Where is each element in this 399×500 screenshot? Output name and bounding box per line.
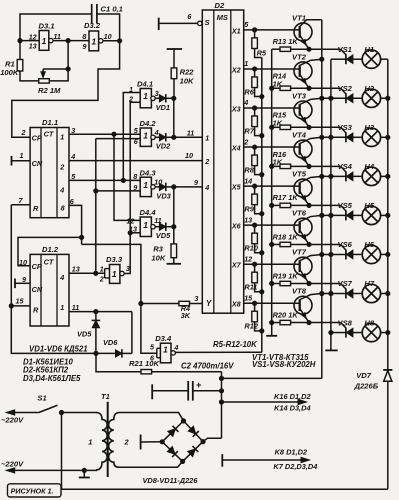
wire D3.2 out xyxy=(103,40,120,42)
node supply rail tap xyxy=(219,376,223,380)
svg-text:6: 6 xyxy=(187,12,192,21)
node VT1 emitter junction xyxy=(307,47,311,51)
wire D1.1 R pin xyxy=(11,204,30,206)
svg-text:2: 2 xyxy=(124,438,130,447)
node collector rail junction xyxy=(320,96,324,100)
wire VD1-VD2 tie xyxy=(173,98,175,137)
node bridge top xyxy=(181,419,185,423)
node D1.2 R junction xyxy=(9,304,13,308)
lamp H2 xyxy=(362,89,380,107)
svg-text:4: 4 xyxy=(59,273,64,282)
wire D2 X7 to VT7 base xyxy=(244,263,300,265)
resistor R12 xyxy=(254,303,256,311)
terminal bar R3 bottom xyxy=(167,263,181,265)
svg-text:1: 1 xyxy=(20,151,24,160)
svg-text:R11: R11 xyxy=(244,283,257,292)
multiplexer D2 xyxy=(202,10,243,313)
counter D1.2 xyxy=(30,254,69,326)
node R17 bus junction xyxy=(270,203,274,207)
wire D1.1 Q2 to D2 pin10 xyxy=(69,160,202,162)
node bridge bottom xyxy=(181,459,185,463)
resistor R18 xyxy=(272,243,280,245)
svg-text:5: 5 xyxy=(150,343,155,352)
svg-text:VT6: VT6 xyxy=(292,209,307,218)
wire D3.4 out to pulldown bus xyxy=(175,351,261,353)
svg-text:R7: R7 xyxy=(244,126,254,135)
lamp return rail xyxy=(387,59,389,370)
wire D3.2 output to D1.1 CP xyxy=(12,41,120,138)
svg-text:VS4: VS4 xyxy=(338,162,353,171)
svg-text:1K: 1K xyxy=(273,118,283,127)
svg-text:K16 D1,D2: K16 D1,D2 xyxy=(274,392,311,401)
resistor R6 xyxy=(254,69,256,77)
svg-text:VS1-VS8-КУ202Н: VS1-VS8-КУ202Н xyxy=(252,360,316,369)
svg-text:1: 1 xyxy=(143,180,148,190)
transistor VT1 xyxy=(294,23,312,41)
terminal bar C2 left xyxy=(151,384,153,399)
terminal bar K8 arrow xyxy=(221,454,223,467)
node D4.4 pin13 junction xyxy=(128,231,132,235)
wire Q8 to D1.2 CP xyxy=(18,237,82,265)
svg-text:X4: X4 xyxy=(231,143,241,152)
svg-text:100K: 100K xyxy=(0,68,19,77)
wire Q4 branch to D4.1 pin1 xyxy=(123,93,140,181)
thyristor VS1 xyxy=(331,58,346,60)
svg-text:13: 13 xyxy=(244,215,252,224)
svg-text:Д226Б: Д226Б xyxy=(354,381,379,390)
svg-text:H2: H2 xyxy=(364,84,374,93)
potentiometer R2 xyxy=(39,79,50,83)
node X2 pulldown tap xyxy=(253,67,257,71)
wire to D4.3 pin9 xyxy=(96,190,140,192)
transistor VT7 xyxy=(294,257,312,275)
wire VT4 emitter to VS4 gate xyxy=(309,165,341,167)
diode VD7 xyxy=(383,369,392,371)
transistor VT6 xyxy=(294,218,312,236)
wire C1 right lead xyxy=(97,14,119,41)
svg-text:R17 1K: R17 1K xyxy=(273,193,299,202)
svg-text:D2: D2 xyxy=(215,1,225,10)
svg-text:VD5: VD5 xyxy=(77,329,92,338)
lamp H3 xyxy=(362,128,380,146)
svg-text:VT2: VT2 xyxy=(292,52,307,61)
svg-text:X2: X2 xyxy=(231,65,241,74)
svg-text:13: 13 xyxy=(29,42,37,51)
gate D4.3 xyxy=(140,177,151,196)
node collector rail junction xyxy=(320,252,324,256)
svg-text:R19 1K: R19 1K xyxy=(273,271,299,280)
node VD2 cathode junction xyxy=(172,135,176,139)
wire D1.1 Q8 down xyxy=(69,205,82,244)
svg-text:9: 9 xyxy=(133,183,137,192)
node VD1 cathode junction xyxy=(172,96,176,100)
svg-text:15: 15 xyxy=(16,297,25,306)
svg-text:R3: R3 xyxy=(153,244,163,253)
svg-text:K8 D1,D2: K8 D1,D2 xyxy=(275,447,308,456)
svg-text:X8: X8 xyxy=(231,300,241,309)
terminal bar bridge common xyxy=(140,435,142,450)
resistor R7 xyxy=(254,108,256,116)
svg-text:R2 1M: R2 1M xyxy=(38,86,61,95)
node X4 pulldown tap xyxy=(253,145,257,149)
svg-text:VD1-VD6 КД521: VD1-VD6 КД521 xyxy=(29,344,88,353)
reset bus left xyxy=(11,205,96,354)
resistor R1 xyxy=(19,41,21,60)
node lamp H2 rail junction xyxy=(386,96,390,100)
lamp H4 xyxy=(362,167,380,185)
wire live down to lamp rail xyxy=(61,413,63,490)
node VD4 cathode junction xyxy=(172,225,176,229)
svg-text:CP: CP xyxy=(32,133,42,142)
svg-text:10K: 10K xyxy=(151,254,165,263)
wire Q1 branch to D4.4 pin12 xyxy=(114,134,140,220)
node collector rail junction xyxy=(320,174,324,178)
svg-text:1: 1 xyxy=(91,37,96,47)
node K16 arrow junction xyxy=(219,400,223,404)
node R16 bus junction xyxy=(270,164,274,168)
node R19 bus junction xyxy=(270,281,274,285)
resistor R19 xyxy=(272,283,280,285)
node X3 pulldown tap xyxy=(253,106,257,110)
wire VT3 emitter to VS3 gate xyxy=(309,126,341,128)
svg-text:Y: Y xyxy=(206,299,212,308)
svg-text:R1: R1 xyxy=(5,60,15,69)
wire D1.1 Q1 to D4.2 pin5 xyxy=(69,133,140,135)
svg-text:3K: 3K xyxy=(181,311,191,320)
lamp H7 xyxy=(362,284,380,302)
gate D3.3 xyxy=(104,269,106,278)
wire K8 common arrow xyxy=(222,459,302,461)
node lamp H7 rail junction xyxy=(386,291,390,295)
svg-text:H1: H1 xyxy=(364,45,374,54)
terminal bar neutral common xyxy=(83,470,85,477)
node R20 bus junction xyxy=(270,320,274,324)
node neutral junction xyxy=(82,468,86,472)
svg-text:K7 D2,D3,D4: K7 D2,D3,D4 xyxy=(273,462,317,471)
node S1 output junction xyxy=(59,410,63,414)
svg-text:1: 1 xyxy=(112,269,117,279)
lamp H8 xyxy=(362,323,380,341)
node R14 bus junction xyxy=(270,86,274,90)
wire VD6 cathode up to D1.2 Q1 xyxy=(131,312,133,354)
resistor R8 xyxy=(254,147,256,155)
svg-text:1: 1 xyxy=(163,345,168,355)
wire address A2 to D2 pin9 xyxy=(174,186,202,188)
wire Q8 to R4 node xyxy=(82,244,141,303)
node VT2 emitter junction xyxy=(307,86,311,90)
node VT5 emitter junction xyxy=(307,203,311,207)
svg-text:VS3: VS3 xyxy=(338,123,353,132)
diode VD10 xyxy=(167,447,175,455)
svg-text:VT1: VT1 xyxy=(292,13,306,22)
thyristor VS8 xyxy=(331,332,346,334)
svg-text:D3.2: D3.2 xyxy=(84,21,101,30)
capacitor C1 xyxy=(91,4,93,24)
svg-text:3: 3 xyxy=(126,264,130,273)
svg-text:12: 12 xyxy=(244,254,252,263)
wire D2 X5 to VT5 base xyxy=(244,185,300,187)
diode VD1 xyxy=(155,97,159,99)
supply vertical from bridge xyxy=(221,372,223,439)
node X6 pulldown tap xyxy=(253,223,257,227)
resistor R5 xyxy=(254,30,256,38)
node R2 top junction xyxy=(66,39,70,43)
svg-text:1K: 1K xyxy=(273,157,283,166)
wire VT8 emitter to VS8 gate xyxy=(309,322,341,324)
collector supply rail xyxy=(321,20,323,379)
svg-text:8: 8 xyxy=(61,204,65,213)
svg-text:VS6: VS6 xyxy=(338,240,353,249)
node R18 bus junction xyxy=(270,242,274,246)
node reset diode junction xyxy=(94,351,98,355)
node VT8 emitter junction xyxy=(307,320,311,324)
svg-text:H4: H4 xyxy=(364,162,374,171)
svg-text:R5-R12-10K: R5-R12-10K xyxy=(213,340,258,349)
gate D4.1 xyxy=(140,89,151,108)
svg-text:VT3: VT3 xyxy=(292,91,307,100)
svg-text:VS1: VS1 xyxy=(338,45,352,54)
svg-text:K14 D3,D4: K14 D3,D4 xyxy=(274,404,311,413)
wire K16 supply arrow xyxy=(222,401,300,403)
svg-text:VS2: VS2 xyxy=(338,84,353,93)
node D4.3 pin9 tap xyxy=(94,189,98,193)
svg-text:VT5: VT5 xyxy=(292,170,307,179)
wire bus to D4.2 pin6 xyxy=(96,138,140,140)
svg-text:2: 2 xyxy=(243,137,248,146)
wire R4 node to D3.4 inputs xyxy=(141,304,157,354)
svg-text:R18 1K: R18 1K xyxy=(273,232,299,241)
svg-text:X7: X7 xyxy=(231,261,242,270)
svg-text:2: 2 xyxy=(21,128,26,137)
wire VT2 emitter to VS2 gate xyxy=(309,87,341,89)
wire to D4.4 pin13 xyxy=(130,232,140,234)
svg-text:12: 12 xyxy=(29,32,37,41)
node lamp H3 rail junction xyxy=(386,135,390,139)
svg-text:C1 0,1: C1 0,1 xyxy=(101,5,123,14)
svg-text:1: 1 xyxy=(205,134,209,143)
svg-text:CN: CN xyxy=(32,159,43,168)
svg-text:X5: X5 xyxy=(231,183,242,192)
svg-text:R8: R8 xyxy=(244,165,254,174)
svg-text:R: R xyxy=(33,204,39,213)
node collector rail junction xyxy=(320,213,324,217)
svg-text:VT7: VT7 xyxy=(292,248,307,257)
node X5 pulldown tap xyxy=(253,184,257,188)
diode VD6 xyxy=(96,352,116,354)
wire Q4 tap bus xyxy=(95,139,97,274)
capacitor C2 xyxy=(187,381,189,401)
terminal bar D1.2 CN xyxy=(14,279,16,289)
svg-text:Т1: Т1 xyxy=(101,392,110,401)
svg-text:10: 10 xyxy=(104,32,112,41)
wire T1 secondary top to bridge xyxy=(120,413,184,421)
svg-text:H3: H3 xyxy=(364,123,374,132)
diode VD5 xyxy=(155,226,159,228)
wire VD3-VD5 tie xyxy=(173,187,175,227)
svg-text:H5: H5 xyxy=(364,201,374,210)
svg-text:8: 8 xyxy=(82,32,86,41)
svg-text:VD3: VD3 xyxy=(156,191,171,200)
svg-text:6: 6 xyxy=(70,197,75,206)
svg-text:VD7: VD7 xyxy=(356,371,372,380)
svg-text:9: 9 xyxy=(82,42,86,51)
node collector rail junction xyxy=(320,57,324,61)
svg-text:VD6: VD6 xyxy=(103,338,118,347)
svg-text:3: 3 xyxy=(194,294,198,303)
svg-text:R22: R22 xyxy=(180,68,195,77)
node VT7 emitter junction xyxy=(307,281,311,285)
svg-text:4: 4 xyxy=(243,98,248,107)
resistor R17 xyxy=(272,204,280,206)
resistor R3 xyxy=(173,227,175,244)
svg-text:VS7: VS7 xyxy=(338,279,353,288)
svg-text:C2 4700m/16V: C2 4700m/16V xyxy=(181,362,234,371)
svg-text:РИСУНОК 1.: РИСУНОК 1. xyxy=(11,487,54,496)
transistor VT5 xyxy=(294,179,312,197)
wire neutral to T1 primary xyxy=(84,469,97,471)
svg-text:D1.2: D1.2 xyxy=(42,245,59,254)
resistor R4 xyxy=(141,303,179,305)
svg-text:H8: H8 xyxy=(364,318,374,327)
diode VD9 xyxy=(188,426,196,434)
svg-text:D4.2: D4.2 xyxy=(140,119,157,128)
svg-text:1: 1 xyxy=(42,36,47,46)
svg-text:R13 1K: R13 1K xyxy=(273,37,299,46)
node Q1 branch xyxy=(112,132,116,136)
resistor R22 xyxy=(173,49,175,68)
transistor VT8 xyxy=(294,296,312,314)
svg-text:D4.1: D4.1 xyxy=(137,80,153,89)
svg-text:H6: H6 xyxy=(364,240,374,249)
node Q4 tap for D4.2/D4.3 xyxy=(94,271,98,275)
diode VD5 reset xyxy=(95,312,97,321)
wire D1.1 Q4 to D4.3 pin8 xyxy=(69,179,140,181)
svg-text:13: 13 xyxy=(72,264,80,273)
node lamp H5 rail junction xyxy=(386,213,390,217)
terminal bar D1.1 CN xyxy=(11,156,13,166)
svg-text:D3,D4-К561ЛЕ5: D3,D4-К561ЛЕ5 xyxy=(23,374,81,383)
figure label frame xyxy=(8,484,62,497)
gate D3.2 xyxy=(89,31,99,51)
svg-text:10: 10 xyxy=(185,151,193,160)
wire D2 X2 to VT2 base xyxy=(244,68,300,70)
resistor R16 xyxy=(272,165,280,167)
svg-text:4: 4 xyxy=(59,186,64,195)
resistor R14 xyxy=(272,87,280,89)
node bridge left xyxy=(160,440,164,444)
wire D2 X3 to VT3 base xyxy=(244,107,300,109)
diode VD8 xyxy=(168,429,176,437)
node lamp H8 rail junction xyxy=(386,330,390,334)
wire D2 X4 to VT4 base xyxy=(244,146,300,148)
node VT3 emitter junction xyxy=(307,125,311,129)
svg-text:9: 9 xyxy=(194,178,198,187)
svg-text:R: R xyxy=(33,306,39,315)
resistor R10 xyxy=(254,225,256,233)
resistor R15 xyxy=(272,126,280,128)
svg-text:1: 1 xyxy=(143,130,148,140)
wire D2 X1 to VT1 base xyxy=(244,29,300,31)
node X7 pulldown tap xyxy=(253,262,257,266)
svg-text:7: 7 xyxy=(19,196,24,205)
svg-text:X1: X1 xyxy=(231,26,241,35)
gate D4.2 xyxy=(140,128,151,146)
diode VD11 xyxy=(188,449,196,457)
wire D1.2 Q1 output xyxy=(69,311,132,313)
node Q4 branch xyxy=(121,178,125,182)
svg-text:~220V: ~220V xyxy=(1,459,24,468)
node lamp H4 rail junction xyxy=(386,174,390,178)
svg-text:10K: 10K xyxy=(180,77,194,86)
node R4 junction xyxy=(139,301,143,305)
svg-text:R20 1K: R20 1K xyxy=(273,310,299,319)
gate D3.4 xyxy=(156,348,158,357)
node bridge right xyxy=(201,440,205,444)
svg-text:4: 4 xyxy=(204,183,209,192)
svg-text:CN: CN xyxy=(32,285,43,294)
svg-text:1: 1 xyxy=(129,85,133,94)
transistor VT3 xyxy=(294,101,312,119)
svg-text:15: 15 xyxy=(244,293,253,302)
wire bridge plus to supply xyxy=(203,438,222,441)
svg-text:5: 5 xyxy=(244,20,249,29)
terminal bar anode bus xyxy=(325,349,337,351)
svg-text:CT: CT xyxy=(44,129,55,138)
svg-text:CP: CP xyxy=(32,262,42,271)
resistor R20 xyxy=(272,322,280,324)
node VT4 emitter junction xyxy=(307,164,311,168)
svg-text:1K: 1K xyxy=(273,79,283,88)
node VD5 anode tap xyxy=(94,310,98,314)
terminal bar emitter bus xyxy=(266,335,277,337)
svg-text:S1: S1 xyxy=(37,394,46,403)
lamp H6 xyxy=(362,245,380,263)
svg-text:D3.4: D3.4 xyxy=(155,334,172,343)
wire D2 X6 to VT6 base xyxy=(244,224,300,226)
svg-text:R12: R12 xyxy=(244,322,258,331)
lamp return bottom rail xyxy=(62,488,388,490)
wire C1 left lead xyxy=(20,14,91,41)
diode VD3 xyxy=(155,186,159,188)
svg-text:VD5: VD5 xyxy=(156,231,171,240)
node R2 wiper junction xyxy=(66,67,70,71)
wire D3.3 out to D4.4 pin13 xyxy=(124,102,140,273)
svg-text:S: S xyxy=(205,18,210,27)
svg-text:VS5: VS5 xyxy=(338,201,353,210)
svg-text:4: 4 xyxy=(173,343,178,352)
gate D3.1 xyxy=(20,40,39,42)
thyristor VS5 xyxy=(322,214,346,216)
svg-text:CT: CT xyxy=(44,257,55,266)
wire VT5 emitter to VS5 gate xyxy=(309,204,341,206)
wire T1 secondary bottom to bridge xyxy=(120,461,183,467)
svg-text:R9: R9 xyxy=(244,205,254,214)
wire D1.2 R pin xyxy=(11,305,30,307)
svg-text:D3.3: D3.3 xyxy=(106,255,123,264)
wire D2 X8 to VT8 base xyxy=(244,302,300,304)
svg-text:D3.1: D3.1 xyxy=(39,21,55,30)
svg-text:R10: R10 xyxy=(244,244,258,253)
svg-text:H7: H7 xyxy=(364,279,374,288)
svg-text:11: 11 xyxy=(187,129,194,138)
wire R1 bottom to R2 xyxy=(20,71,39,81)
node VD3 cathode junction xyxy=(172,185,176,189)
svg-text:2: 2 xyxy=(204,157,209,166)
svg-text:X6: X6 xyxy=(231,222,242,231)
resistor R9 xyxy=(254,186,256,194)
svg-text:3: 3 xyxy=(155,89,159,98)
diode VD2 xyxy=(155,136,159,138)
